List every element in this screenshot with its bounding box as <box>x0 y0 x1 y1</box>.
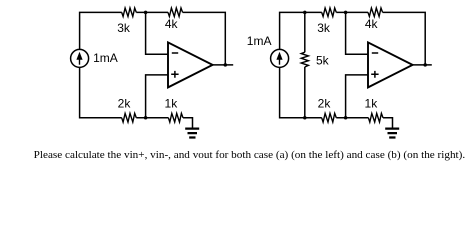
wire: 2k to 1k (case a) <box>136 117 168 119</box>
resistor 3k (case a) <box>122 8 137 17</box>
node: 5k bottom junction dot (case b) <box>303 116 307 120</box>
wire: 1k to ground (case a) <box>183 118 193 128</box>
wire: output stub (case a) <box>213 64 234 66</box>
wire: 3k to 4k (case a) <box>136 11 168 13</box>
svg-text:3k: 3k <box>117 21 131 35</box>
node: bottom junction dot (case a) <box>144 116 148 120</box>
svg-text:1k: 1k <box>365 96 379 110</box>
node: 5k top junction dot (case b) <box>303 11 307 15</box>
svg-text:1mA: 1mA <box>93 51 118 65</box>
wire: inverting input drop (case a) <box>146 12 168 54</box>
op-amp U2 (case b) <box>368 42 413 87</box>
ground (case b) <box>385 129 399 138</box>
resistor 1k (case a) <box>168 113 183 122</box>
svg-text:1k: 1k <box>165 96 179 110</box>
svg-text:1mA: 1mA <box>247 34 272 48</box>
wire: output stub (case b) <box>413 64 432 66</box>
resistor 2k (case b) <box>322 113 337 122</box>
svg-text:4k: 4k <box>165 17 179 31</box>
ground (case a) <box>185 129 199 138</box>
resistor 2k (case a) <box>122 113 137 122</box>
wire: non-inverting input drop (case a) <box>146 75 168 118</box>
node: bottom junction dot (case b) <box>344 116 348 120</box>
wire: 3k to 4k (case b) <box>336 11 368 13</box>
current source I1 1mA (case a) <box>71 49 89 67</box>
wire: non-inverting input drop (case b) <box>346 75 368 118</box>
current source I2 1mA (case b) <box>271 49 289 67</box>
wire: left rail bottom (case a) <box>80 67 122 117</box>
node: output junction dot (case a) <box>224 63 228 67</box>
wire: left rail top + top wire to 3k (case b) <box>280 12 322 49</box>
svg-text:3k: 3k <box>317 21 331 35</box>
resistor 1k (case b) <box>368 113 383 122</box>
svg-text:Please calculate the vin+, vin: Please calculate the vin+, vin-, and vou… <box>34 150 466 161</box>
wire: feedback from 4k down to output (case a) <box>183 12 226 65</box>
svg-text:5k: 5k <box>316 54 330 68</box>
wire: left rail top + top wire to 3k (case a) <box>80 12 122 49</box>
wire: feedback from 4k down to output (case b) <box>383 12 426 65</box>
svg-text:2k: 2k <box>118 96 132 110</box>
wire: left rail bottom (case b) <box>280 67 322 117</box>
resistor 3k (case b) <box>322 8 337 17</box>
resistor 4k (case b) <box>368 8 383 17</box>
wire: 1k to ground (case b) <box>383 118 393 128</box>
svg-text:2k: 2k <box>318 96 332 110</box>
node: top junction dot (case b) <box>344 11 348 15</box>
wire: inverting input drop (case b) <box>346 12 368 54</box>
node: top junction dot (case a) <box>144 11 148 15</box>
node: output junction dot (case b) <box>423 63 427 67</box>
wire: 2k to 1k (case b) <box>336 117 368 119</box>
op-amp U1 (case a) <box>168 42 213 87</box>
svg-text:4k: 4k <box>365 17 379 31</box>
resistor 5k vertical (case b) <box>304 12 306 52</box>
resistor 4k (case a) <box>168 8 183 17</box>
